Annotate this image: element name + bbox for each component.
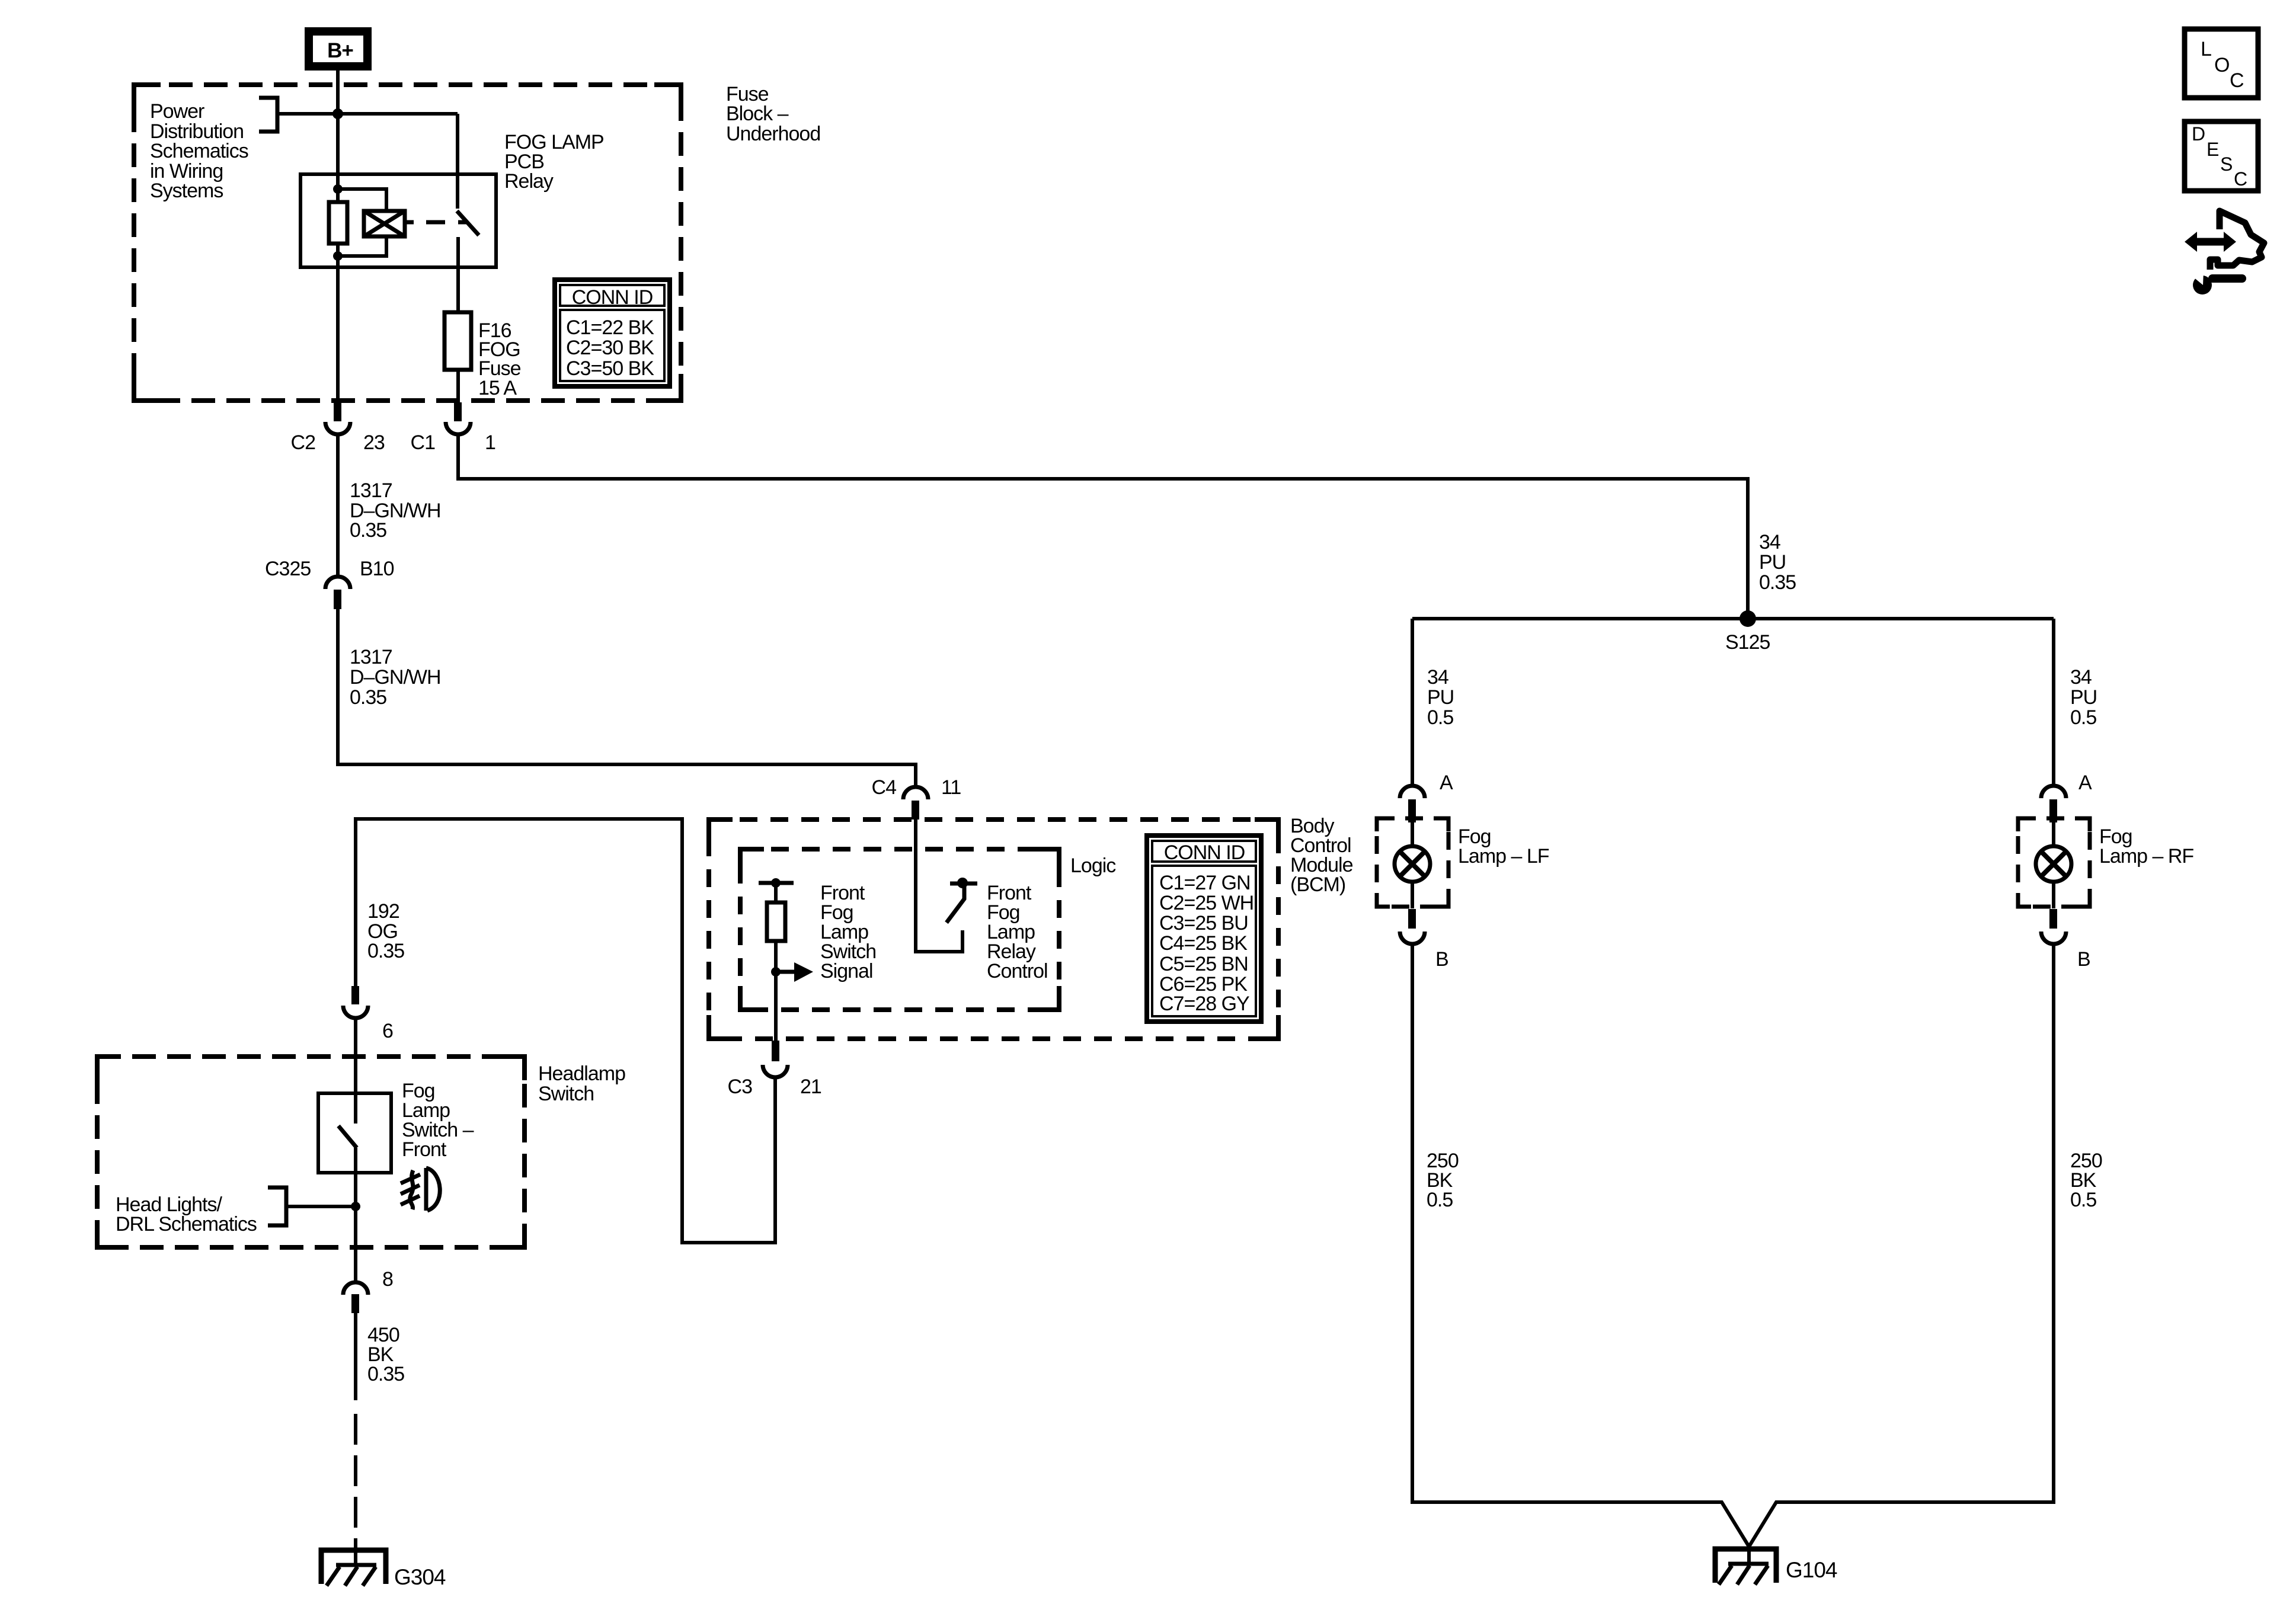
svg-text:S: S: [2220, 153, 2232, 175]
svg-text:1317: 1317: [350, 646, 392, 668]
svg-text:A: A: [1440, 772, 1453, 794]
svg-text:PU: PU: [1427, 686, 1454, 709]
fuse block underhood dashed box: [134, 85, 681, 401]
svg-text:Signal: Signal: [820, 960, 873, 982]
wire down to fog lamp RF connector A: [2052, 619, 2055, 784]
wire down to relay switch contact: [456, 114, 459, 209]
svg-text:34: 34: [1427, 666, 1448, 689]
fog lamp RF dashed box: [2018, 818, 2090, 907]
B+ battery feed terminal box: [309, 31, 367, 66]
svg-text:Logic: Logic: [1070, 854, 1116, 877]
svg-text:CONN ID: CONN ID: [1164, 841, 1245, 864]
svg-text:C2: C2: [291, 431, 316, 454]
svg-text:D: D: [2192, 123, 2205, 145]
svg-text:G304: G304: [394, 1565, 446, 1589]
wire C3 down, across, up to headlamp switch loop: [356, 819, 775, 1243]
wire label 1317 D-GN/WH 0.35 upper: [350, 479, 441, 542]
svg-text:34: 34: [1759, 531, 1780, 553]
svg-text:0.35: 0.35: [350, 519, 386, 542]
svg-text:C325: C325: [265, 558, 311, 580]
svg-text:0.5: 0.5: [2070, 706, 2096, 729]
label: Power Distribution Schematics in Wiring Systems: [150, 100, 248, 202]
connector B fog lamp RF: [2041, 909, 2090, 971]
signal sense arrow: [776, 970, 794, 974]
svg-text:1317: 1317: [350, 479, 392, 502]
svg-text:C5=25 BN: C5=25 BN: [1159, 953, 1248, 975]
svg-text:Front: Front: [402, 1138, 447, 1161]
head lights DRL bracket: [268, 1188, 286, 1225]
svg-text:C1: C1: [411, 431, 436, 454]
node dot top of signal branch: [771, 878, 781, 888]
relay switch blade: [457, 211, 479, 235]
label: Head Lights/ DRL Schematics: [116, 1193, 257, 1235]
wire from bracket to relay branch: [277, 112, 458, 116]
fog lamp switch blade: [338, 1126, 357, 1148]
headlamp switch dashed box: [97, 1057, 525, 1247]
svg-text:G104: G104: [1786, 1558, 1837, 1582]
svg-text:DRL Schematics: DRL Schematics: [116, 1213, 257, 1235]
relay switch contact tick: [458, 220, 468, 225]
relay control top contact tick: [950, 882, 977, 886]
svg-text:6: 6: [382, 1020, 393, 1042]
connector C4 pin 11 at BCM: [872, 776, 961, 820]
relay coil branch wire bottom: [338, 236, 386, 256]
svg-text:11: 11: [941, 776, 961, 799]
wire C1 across top to S125 branch: [458, 436, 1748, 611]
wire B+ down through relay to C2 pin: [336, 71, 340, 404]
svg-text:C4: C4: [872, 776, 897, 799]
svg-text:CONN ID: CONN ID: [572, 286, 653, 309]
LOC icon box: [2185, 29, 2258, 98]
svg-text:Control: Control: [987, 960, 1048, 982]
wire down to fog lamp LF connector A: [1411, 619, 1414, 784]
wire pin6 into fog lamp switch: [354, 1019, 357, 1124]
wire through fog lamp LF: [1411, 822, 1414, 908]
wire dashed to ground G304: [354, 1414, 357, 1548]
front fog lamp relay control switch inside BCM: [916, 820, 977, 952]
connector B fog lamp LF: [1400, 909, 1448, 971]
svg-text:0.5: 0.5: [1427, 1189, 1453, 1211]
wire label 450 BK 0.35: [367, 1324, 404, 1385]
label: Front Fog Lamp Switch Signal: [820, 882, 876, 982]
label: Fuse Block - Underhood: [726, 83, 820, 145]
svg-text:15 A: 15 A: [478, 377, 517, 399]
svg-text:Block –: Block –: [726, 103, 789, 125]
svg-text:1: 1: [485, 431, 495, 454]
wire C325 down and across to C4: [338, 609, 916, 785]
label: Fog Lamp - RF: [2099, 825, 2193, 868]
svg-text:C3=25 BU: C3=25 BU: [1159, 912, 1248, 934]
connector A fog lamp RF: [2041, 772, 2092, 822]
svg-text:C2=25 WH: C2=25 WH: [1159, 892, 1253, 914]
relay coil branch wire top: [338, 189, 386, 211]
wire label 34 PU 0.5 left: [1427, 666, 1454, 729]
fuse F16: [445, 312, 471, 370]
svg-text:B+: B+: [327, 39, 353, 62]
svg-text:C4=25 BK: C4=25 BK: [1159, 932, 1248, 955]
svg-text:0.5: 0.5: [1427, 706, 1453, 729]
BCM body control module dashed box: [709, 820, 1278, 1039]
node junction dot at B+ tap: [332, 108, 343, 119]
connector A fog lamp LF: [1400, 772, 1453, 822]
node dot relay control: [957, 878, 968, 888]
svg-text:B: B: [2077, 948, 2090, 971]
wire label 250 BK 0.5 left: [1427, 1150, 1459, 1211]
label: Fog Lamp - LF: [1458, 825, 1549, 868]
CONN ID table BCM: [1147, 836, 1261, 1022]
wire label 250 BK 0.5 right: [2070, 1150, 2102, 1211]
svg-text:C3=50 BK: C3=50 BK: [566, 357, 654, 380]
svg-text:C7=28 GY: C7=28 GY: [1159, 993, 1249, 1015]
relay internal junction dot bottom: [333, 251, 343, 261]
relay K1 FOG LAMP PCB Relay box: [300, 174, 496, 267]
connector pin 8 headlamp switch: [343, 1268, 393, 1313]
svg-text:B10: B10: [360, 558, 394, 580]
svg-text:Underhood: Underhood: [726, 123, 820, 145]
wire through fog lamp RF: [2052, 822, 2055, 908]
svg-text:Schematics: Schematics: [150, 140, 248, 162]
power distribution bracket: [259, 98, 277, 132]
label: Headlamp Switch: [538, 1062, 625, 1105]
wire label 34 PU 0.35: [1759, 531, 1796, 594]
svg-text:34: 34: [2070, 666, 2092, 689]
fog lamp RF bulb: [2036, 846, 2071, 882]
svg-text:C2=30 BK: C2=30 BK: [566, 337, 654, 359]
svg-text:B: B: [1435, 948, 1448, 971]
svg-text:L: L: [2201, 38, 2211, 60]
svg-text:(BCM): (BCM): [1290, 873, 1345, 896]
relay resistor: [329, 202, 347, 244]
svg-text:O: O: [2214, 54, 2229, 76]
signal branch wire down to C3: [774, 883, 778, 1041]
signal pull resistor: [767, 902, 785, 941]
wire bracket to switch output: [286, 1205, 356, 1208]
wire label 192 OG 0.35: [367, 900, 404, 962]
fog lamp LF bulb: [1395, 846, 1430, 882]
ground G304: [321, 1550, 446, 1589]
label: FOG LAMP PCB Relay: [504, 131, 604, 193]
connector C1 pin 1 at fuse block: [411, 402, 495, 454]
svg-text:E: E: [2207, 139, 2218, 160]
connector pin 6 headlamp switch: [343, 986, 393, 1042]
splice S125 junction dot: [1739, 610, 1756, 627]
fog lamp switch box: [318, 1093, 391, 1173]
wire label 1317 D-GN/WH 0.35 lower: [350, 646, 441, 709]
node dot at switch output: [351, 1202, 360, 1211]
label: F16 FOG Fuse 15 A: [478, 319, 521, 399]
label: Front Fog Lamp Relay Control: [987, 882, 1048, 982]
connector C3 pin 21 at BCM bottom: [728, 1041, 821, 1098]
fog lamp beam icon: [401, 1168, 440, 1211]
svg-text:S125: S125: [1725, 631, 1770, 654]
wire from switch to pin 8: [354, 1148, 357, 1281]
svg-text:192: 192: [367, 900, 399, 923]
svg-text:Power: Power: [150, 100, 204, 123]
swap part icon arrow: [2185, 211, 2264, 295]
fog lamp LF dashed box: [1377, 818, 1448, 907]
svg-text:Lamp – LF: Lamp – LF: [1458, 845, 1549, 868]
connector C325 pin B10: [265, 558, 394, 609]
svg-text:C: C: [2234, 168, 2247, 190]
label: Fog Lamp Switch - Front: [402, 1080, 474, 1161]
svg-text:0.35: 0.35: [350, 686, 386, 709]
svg-text:Headlamp: Headlamp: [538, 1062, 625, 1085]
DESC icon box: [2185, 121, 2258, 191]
svg-text:Systems: Systems: [150, 180, 223, 202]
svg-text:21: 21: [800, 1076, 821, 1098]
swap part icon outline: [2210, 211, 2264, 270]
relay control switch blade: [946, 885, 964, 923]
svg-text:0.5: 0.5: [2070, 1189, 2096, 1211]
svg-text:A: A: [2078, 772, 2092, 794]
svg-text:0.35: 0.35: [367, 940, 404, 962]
relay switch bottom contact wire to fuse and C1 pin: [456, 237, 460, 404]
relay control wire from C4 up into switch: [916, 820, 962, 952]
svg-text:C1=27 GN: C1=27 GN: [1159, 872, 1251, 894]
ground G104: [1715, 1545, 1837, 1585]
logic dashed box inside BCM: [740, 849, 1059, 1010]
CONN ID table fuse block: [555, 280, 670, 386]
wire label 34 PU 0.5 right: [2070, 666, 2097, 729]
relay internal junction dot top: [333, 184, 343, 194]
wire C2 to C325: [336, 436, 340, 575]
swap part icon wrench: [2193, 276, 2212, 295]
signal branch tick: [759, 881, 794, 885]
svg-text:D–GN/WH: D–GN/WH: [350, 666, 441, 689]
svg-text:0.35: 0.35: [1759, 571, 1796, 594]
label: Body Control Module (BCM): [1290, 815, 1353, 896]
svg-text:C: C: [2230, 69, 2244, 92]
ground wire fog lamp RF to G104: [1749, 944, 2054, 1547]
svg-text:23: 23: [363, 431, 385, 454]
svg-text:PU: PU: [1759, 551, 1786, 574]
svg-text:C3: C3: [728, 1076, 753, 1098]
svg-text:Switch: Switch: [538, 1083, 594, 1105]
node dot signal sense: [771, 967, 781, 977]
wire pin 8 down solid: [354, 1313, 357, 1400]
svg-text:0.35: 0.35: [367, 1363, 404, 1385]
svg-text:Relay: Relay: [504, 170, 554, 193]
svg-text:Lamp – RF: Lamp – RF: [2099, 845, 2193, 868]
front fog lamp switch signal input branch: [759, 878, 813, 1041]
ground wire fog lamp LF to G104: [1412, 944, 1749, 1547]
relay coil box with X: [364, 211, 445, 236]
svg-text:8: 8: [382, 1268, 393, 1291]
svg-text:PU: PU: [2070, 686, 2097, 709]
connector C2 pin 23 at fuse block: [291, 402, 385, 454]
main wire across to both fog lamps: [1412, 617, 2054, 620]
svg-text:C1=22 BK: C1=22 BK: [566, 316, 654, 339]
